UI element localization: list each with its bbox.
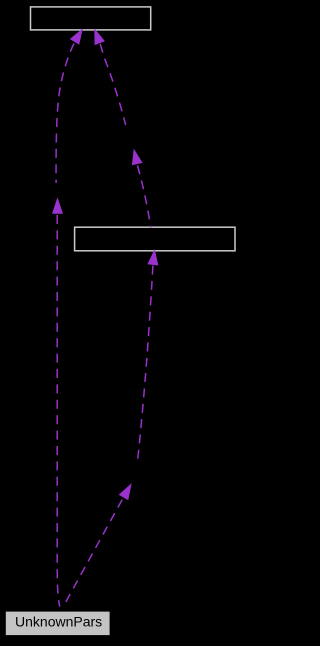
wire: edge left label to top box (dashed) <box>56 44 74 184</box>
arrowhead mid lower-right (up-right) <box>119 483 132 500</box>
wire: edge middle box to upper-right label (dashed) <box>138 166 151 228</box>
wire: edge upper-right label to top box (dashed) <box>100 44 126 125</box>
arrowhead into middle box bottom <box>147 249 158 266</box>
node UnknownPars <box>6 612 110 636</box>
arrowhead into top box right <box>94 28 105 45</box>
arrowhead left mid (up) <box>52 197 63 214</box>
wire: edge UnknownPars to left label (dashed) <box>57 215 60 607</box>
wire: edge UnknownPars diagonal to lower-right label (dashed) <box>64 497 124 606</box>
wire: edge lower-right label to middle box (dashed) <box>137 266 153 463</box>
svg-text:UnknownPars: UnknownPars <box>15 614 102 630</box>
arrowhead mid upper-right (up-left) <box>132 149 143 166</box>
node box top (empty label) <box>31 7 151 30</box>
node box middle (empty label) <box>75 227 235 251</box>
arrowhead into top box left <box>70 28 83 45</box>
